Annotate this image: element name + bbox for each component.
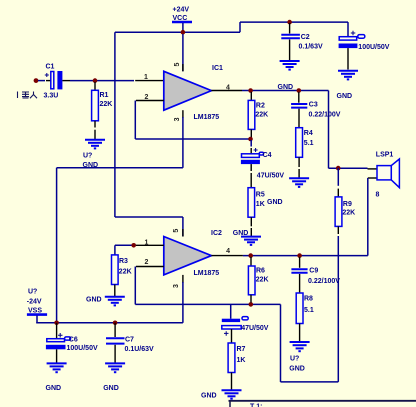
svg-text:0.1/63V: 0.1/63V — [299, 43, 323, 50]
ground symbol under C6 — [46, 363, 67, 391]
svg-text:5.1: 5.1 — [304, 140, 314, 147]
node VCC junction at IC1 pin5 — [181, 30, 186, 35]
svg-text:3.3U: 3.3U — [44, 93, 59, 100]
svg-text:5: 5 — [173, 229, 180, 233]
svg-text:0.1U/63V: 0.1U/63V — [125, 346, 155, 353]
wire input to C1 — [38, 80, 45, 82]
svg-text:GND: GND — [103, 385, 119, 392]
svg-text:IC1: IC1 — [212, 65, 223, 72]
svg-text:R2: R2 — [256, 102, 265, 109]
node junction C9 zobel tap — [297, 253, 302, 258]
svg-text:U?: U? — [83, 153, 92, 160]
wire feedback bottom horizontal — [281, 381, 339, 383]
svg-text:8: 8 — [376, 192, 380, 199]
svg-text:1K: 1K — [237, 357, 246, 364]
power port VSS -24V — [27, 289, 47, 323]
wire VCC rail upper-left segment — [115, 31, 240, 33]
capacitor C3 0.22/100V zobel IC1 — [291, 92, 341, 128]
node input terminal — [34, 78, 39, 83]
svg-text:LSP1: LSP1 — [376, 152, 394, 159]
capacitor C6 100U/50V electrolytic — [46, 323, 98, 363]
svg-text:22K: 22K — [342, 210, 355, 217]
pin IC1 output — [211, 90, 242, 92]
pin C1 right — [62, 80, 70, 82]
resistor R1 22K — [92, 82, 113, 139]
op-amp U1 IC1 LM1875 — [164, 65, 223, 121]
svg-text:4: 4 — [226, 248, 230, 255]
wire VCC to IC2 pin5 horizontal — [115, 216, 183, 218]
wire VCC left drop to IC2 — [114, 32, 116, 217]
capacitor C? 100U/50V electrolytic top right — [339, 22, 390, 69]
wire VCC rail upper-right segment — [240, 21, 348, 23]
wire IC2 pin1 left segment — [115, 244, 136, 246]
pin C1 left — [46, 80, 51, 82]
node VCC junction at C2 — [287, 20, 292, 25]
svg-text:GND: GND — [289, 365, 305, 372]
wire C1 to IC1 pin1 — [70, 80, 134, 82]
node junction R1 tap — [93, 78, 98, 83]
ground symbol under R3 — [86, 297, 125, 306]
resistor R2 22K — [248, 92, 268, 138]
wire IC1 feedback left vertical — [134, 101, 136, 140]
svg-text:47U/50V: 47U/50V — [241, 325, 269, 332]
wire IC1 output drop to speaker line — [328, 91, 330, 169]
pin IC2 pin1 — [136, 244, 164, 246]
wire feedback right vertical — [280, 304, 282, 382]
svg-text:-24V: -24V — [27, 299, 42, 306]
pin IC1 pin5 vertical — [182, 34, 184, 71]
node junction IC1 feedback (R2/C4/pin2) — [248, 137, 253, 142]
wire IC2 pin3 down to VSS rail — [182, 282, 184, 323]
wire IC2 output to speaker — [243, 255, 368, 257]
resistor R9 22K BTL feedback — [335, 168, 355, 234]
svg-text:C7: C7 — [125, 337, 134, 344]
resistor R8 5.1 — [296, 293, 314, 341]
svg-text:GND: GND — [337, 93, 353, 100]
resistor R4 5.1 — [296, 128, 314, 178]
svg-text:22K: 22K — [255, 112, 268, 119]
svg-text:LM1875: LM1875 — [194, 114, 220, 121]
svg-text:C3: C3 — [309, 102, 318, 109]
capacitor C8 47U/50V polarized — [222, 304, 269, 343]
ground symbol under R8 — [289, 342, 309, 372]
ground symbol under 100U cap — [337, 71, 359, 100]
svg-text:22K: 22K — [256, 277, 269, 284]
wire speaker top feed — [329, 167, 368, 169]
resistor R3 22K — [112, 255, 132, 296]
svg-text:0.22/100V: 0.22/100V — [308, 278, 340, 285]
svg-text:22K: 22K — [100, 101, 113, 108]
svg-text:1K: 1K — [256, 201, 265, 208]
wire VCC rail step — [239, 22, 241, 32]
svg-text:T 1:: T 1: — [250, 404, 262, 407]
svg-text:100U/50V: 100U/50V — [358, 44, 389, 51]
svg-text:R9: R9 — [343, 201, 352, 208]
node junction IC2 feedback (R6/C8) — [249, 302, 254, 307]
svg-text:5: 5 — [174, 63, 181, 67]
node junction C7 tap — [113, 321, 118, 326]
svg-text:R8: R8 — [304, 296, 313, 303]
svg-text:GND: GND — [233, 230, 249, 237]
node junction R6 tap — [248, 253, 253, 258]
resistor R6 22K — [248, 257, 268, 303]
wire VSS rail — [36, 322, 183, 324]
svg-text:R6: R6 — [256, 268, 265, 275]
svg-text:R5: R5 — [256, 192, 265, 199]
capacitor C9 0.22/100V zobel IC2 — [291, 257, 340, 293]
wire IC1 pin3 left to VSS drop — [57, 167, 183, 169]
ground symbol under C2 — [280, 61, 300, 70]
ground symbol under C7 — [103, 363, 125, 391]
svg-text:GND: GND — [267, 199, 283, 206]
svg-text:3: 3 — [174, 117, 181, 121]
pin IC2 pin5 vertical — [182, 217, 184, 237]
svg-text:3: 3 — [173, 284, 180, 288]
svg-text:IC2: IC2 — [211, 230, 222, 237]
svg-text:U?: U? — [28, 289, 37, 296]
svg-text:5.1: 5.1 — [304, 307, 314, 314]
svg-text:0.22/100V: 0.22/100V — [309, 112, 341, 119]
wire left vertical to VSS rail — [56, 168, 58, 323]
ground symbol under R1 — [83, 140, 106, 169]
svg-text:2: 2 — [145, 259, 149, 266]
wire IC2 pin1 down to R3 — [114, 245, 116, 255]
node junction C3 zobel tap — [297, 88, 302, 93]
pin IC1 pin3 vertical — [182, 110, 184, 118]
svg-text:C2: C2 — [301, 34, 310, 41]
svg-text:GND: GND — [46, 385, 62, 392]
speaker LSP1 — [368, 152, 400, 199]
svg-text:LM1875: LM1875 — [194, 270, 220, 277]
ground symbol under R4 — [267, 178, 309, 206]
capacitor C2 0.1/63V — [281, 23, 323, 60]
node junction C6 / left vertical — [54, 321, 59, 326]
resistor R5 1K — [248, 188, 265, 236]
svg-text:GND: GND — [201, 392, 217, 399]
capacitor C7 0.1U/63V — [106, 323, 154, 363]
pin IC2 pin3 vertical — [182, 275, 184, 283]
svg-text:1: 1 — [144, 74, 148, 81]
svg-text:22K: 22K — [119, 269, 132, 276]
svg-text:47U/50V: 47U/50V — [257, 172, 285, 179]
pin IC1 pin2 — [136, 100, 164, 102]
svg-text:R4: R4 — [304, 130, 313, 137]
wire R9 bottom down to IC2 feedback loop — [337, 236, 339, 382]
node junction R2 tap — [248, 88, 253, 93]
svg-text:C1: C1 — [46, 64, 55, 71]
pin IC2 pin2 — [136, 266, 164, 268]
svg-text:GND: GND — [278, 84, 294, 91]
svg-text:R7: R7 — [237, 346, 246, 353]
ground symbol under R5 — [233, 230, 261, 245]
wire IC1 output to speaker drop — [242, 90, 329, 92]
wire IC1 pin3 down — [182, 117, 184, 168]
svg-text:C9: C9 — [309, 267, 318, 274]
resistor R7 1K — [228, 343, 245, 390]
capacitor C1 3.3U polarized — [44, 64, 63, 100]
svg-text:C6: C6 — [69, 337, 78, 344]
svg-text:+24V: +24V — [173, 7, 190, 14]
wire speaker bottom drop — [367, 178, 369, 256]
svg-text:C4: C4 — [263, 152, 272, 159]
capacitor C4 47U/50V polarized — [241, 140, 284, 188]
svg-text:U?: U? — [290, 356, 299, 363]
wire IC2 feedback left vertical — [134, 267, 136, 305]
power port VCC +24V — [172, 7, 192, 33]
wire IC1 feedback bottom horizontal — [135, 138, 250, 140]
sheet border / title block edge — [229, 401, 416, 407]
op-amp U2 IC2 LM1875 — [164, 237, 219, 277]
pin IC2 output — [211, 255, 243, 257]
pin IC1 pin1 — [135, 80, 164, 82]
svg-text:GND: GND — [86, 297, 102, 304]
wire IC2 feedback bottom horizontal — [135, 303, 280, 305]
svg-text:100U/50V: 100U/50V — [67, 345, 98, 352]
input label (Chinese: signal input) — [18, 92, 38, 99]
ground symbol under R7 — [201, 390, 242, 399]
node stray junction on IC2 pin1 wire — [131, 243, 136, 248]
node junction R9 tap — [336, 166, 341, 171]
svg-text:R3: R3 — [119, 258, 128, 265]
svg-text:R1: R1 — [100, 92, 109, 99]
